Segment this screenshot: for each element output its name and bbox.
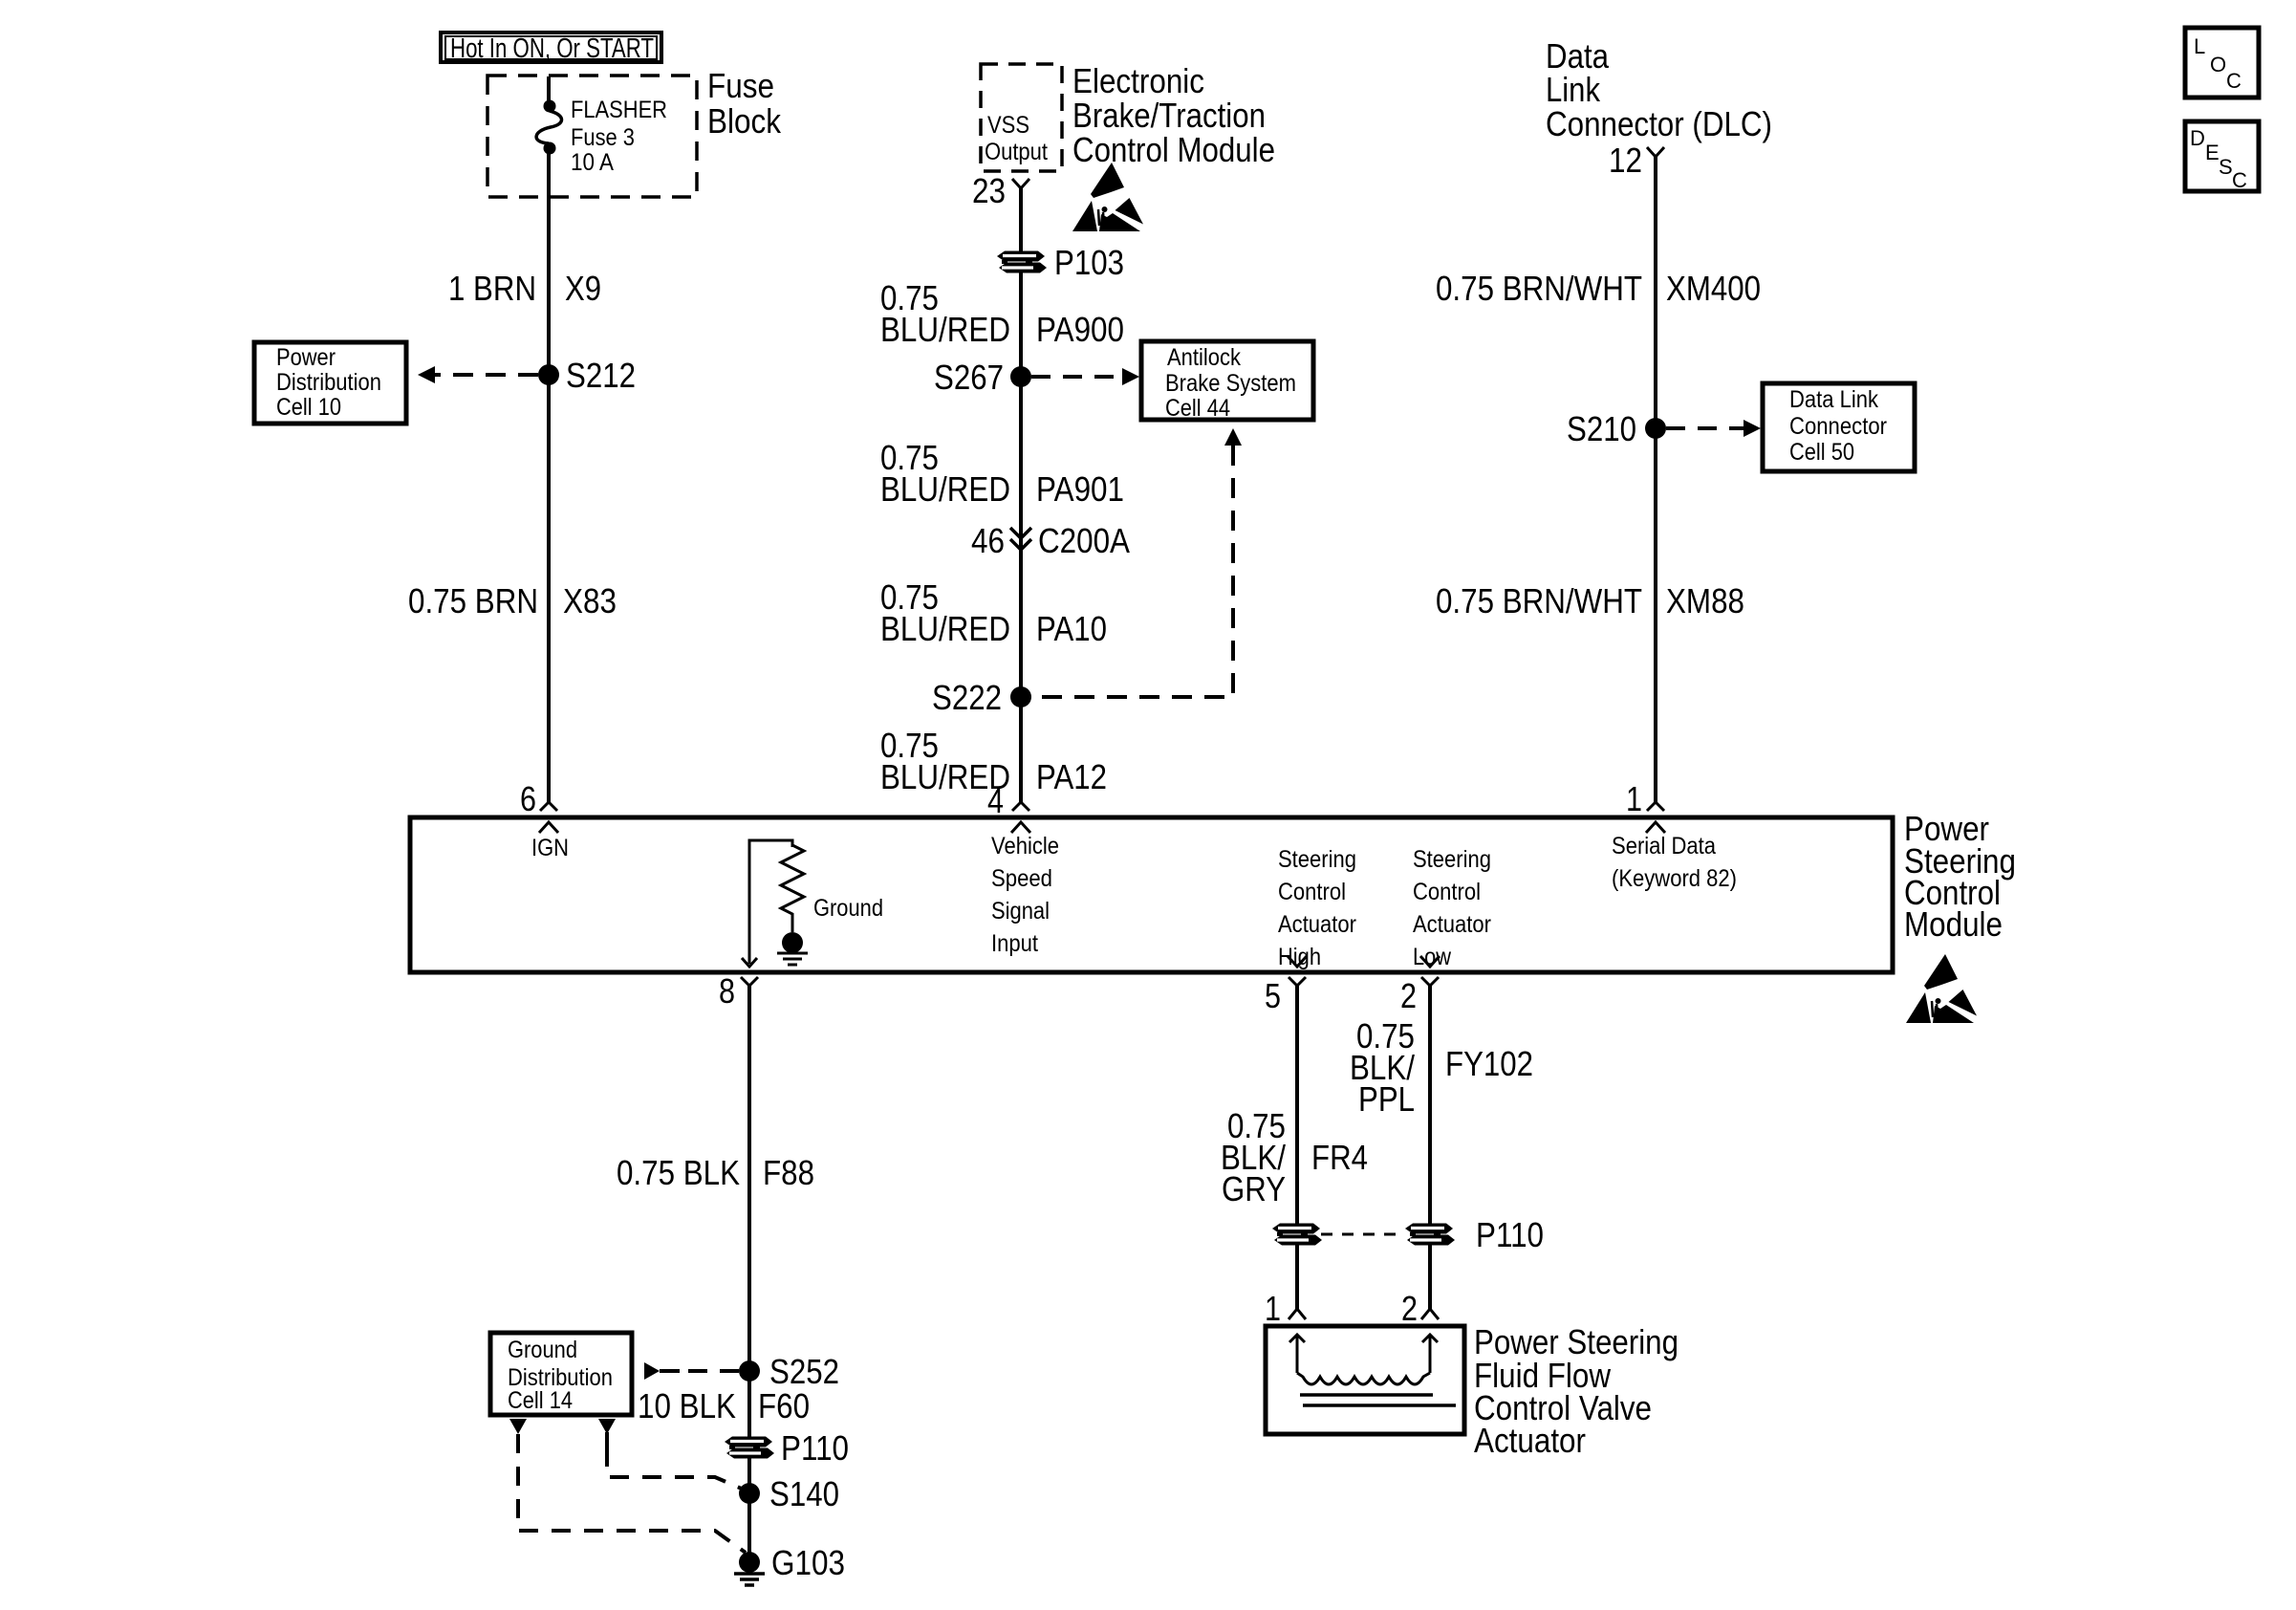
label: Steering Control Actuator High bbox=[1278, 846, 1356, 970]
box: DESC bbox=[2185, 121, 2259, 192]
svg-text:Cell 14: Cell 14 bbox=[508, 1387, 573, 1414]
svg-text:1: 1 bbox=[1265, 1289, 1281, 1328]
svg-text:O: O bbox=[2210, 53, 2226, 76]
splice S140 bbox=[739, 1474, 839, 1513]
label: 0.75 BLU/RED PA900 bbox=[880, 278, 1124, 349]
svg-text:Power: Power bbox=[276, 344, 336, 371]
svg-text:PA12: PA12 bbox=[1036, 757, 1107, 796]
fuse block dashed box bbox=[487, 76, 697, 197]
svg-text:0.75 BRN/WHT: 0.75 BRN/WHT bbox=[1436, 269, 1642, 308]
dashed line S222 to Antilock box with up arrow bbox=[1031, 428, 1242, 697]
svg-text:S212: S212 bbox=[566, 356, 636, 395]
pin 1 label and fork bbox=[1626, 779, 1664, 818]
svg-text:BLU/RED: BLU/RED bbox=[880, 609, 1010, 648]
svg-text:PA10: PA10 bbox=[1036, 609, 1107, 648]
svg-text:F88: F88 bbox=[763, 1153, 814, 1192]
svg-text:Input: Input bbox=[991, 930, 1038, 957]
dashed line to G103 bbox=[518, 1434, 746, 1553]
pin 8 label and fork bbox=[719, 971, 758, 1011]
svg-text:Distribution: Distribution bbox=[276, 369, 381, 396]
svg-text:Output: Output bbox=[985, 139, 1048, 165]
svg-text:Fuse 3: Fuse 3 bbox=[571, 124, 635, 151]
svg-text:10 BLK: 10 BLK bbox=[638, 1386, 736, 1425]
svg-text:Actuator: Actuator bbox=[1278, 911, 1356, 938]
svg-text:Brake System: Brake System bbox=[1165, 370, 1296, 397]
svg-text:S222: S222 bbox=[932, 678, 1002, 717]
wire: fuse block top stub bbox=[547, 76, 551, 101]
splice S210 bbox=[1567, 409, 1666, 448]
svg-text:BLU/RED: BLU/RED bbox=[880, 469, 1010, 509]
actuator pin 2 label and fork bbox=[1401, 1289, 1439, 1328]
box: Power Distribution Cell 10 bbox=[254, 342, 406, 424]
label: 0.75 BLK/PPL FY102 bbox=[1350, 1016, 1533, 1119]
wire: VSS signal (pin 23 to module pin 4) bbox=[1019, 188, 1023, 802]
svg-text:10 A: 10 A bbox=[571, 149, 614, 176]
svg-text:C200A: C200A bbox=[1038, 521, 1130, 560]
internal ground symbol bbox=[782, 932, 803, 953]
svg-text:Serial Data: Serial Data bbox=[1612, 833, 1716, 859]
svg-text:Data Link: Data Link bbox=[1789, 386, 1878, 413]
svg-text:L: L bbox=[2194, 34, 2205, 58]
internal ground circuit: wire, resistor, ground bbox=[742, 840, 883, 967]
connector grommet P110 left bbox=[1272, 1224, 1322, 1246]
dashed link between P110 halves bbox=[1321, 1233, 1405, 1236]
svg-text:S140: S140 bbox=[769, 1474, 839, 1513]
svg-text:Link: Link bbox=[1546, 70, 1601, 109]
svg-text:46: 46 bbox=[971, 521, 1005, 560]
splice S222 bbox=[932, 678, 1031, 717]
svg-text:X83: X83 bbox=[563, 581, 617, 620]
svg-text:Hot In ON, Or START: Hot In ON, Or START bbox=[450, 33, 654, 64]
splice S252 bbox=[739, 1352, 839, 1391]
connector grommet P110 (ground) bbox=[725, 1428, 849, 1468]
svg-text:P103: P103 bbox=[1054, 243, 1124, 282]
label: 0.75 BRN X83 bbox=[408, 581, 617, 620]
svg-text:2: 2 bbox=[1400, 976, 1417, 1015]
svg-text:Steering: Steering bbox=[1413, 846, 1491, 873]
svg-text:Cell 10: Cell 10 bbox=[276, 394, 341, 421]
svg-text:GRY: GRY bbox=[1222, 1169, 1286, 1208]
label: Electronic Brake/Traction Control Module bbox=[1072, 61, 1275, 169]
svg-text:Ground: Ground bbox=[508, 1337, 577, 1363]
svg-text:S210: S210 bbox=[1567, 409, 1636, 448]
label: 10 BLK F60 bbox=[638, 1386, 810, 1425]
svg-text:X9: X9 bbox=[565, 269, 601, 308]
label: 0.75 BLK F88 bbox=[617, 1153, 814, 1192]
svg-text:D: D bbox=[2190, 126, 2205, 150]
svg-text:S: S bbox=[2219, 155, 2233, 179]
dashed arrow to splice S252 bbox=[644, 1362, 739, 1380]
svg-text:Brake/Traction: Brake/Traction bbox=[1072, 96, 1266, 135]
svg-text:Control: Control bbox=[1413, 879, 1481, 905]
label: Vehicle Speed Signal Input bbox=[991, 833, 1059, 957]
svg-text:FLASHER: FLASHER bbox=[571, 97, 667, 123]
svg-text:Block: Block bbox=[707, 101, 782, 141]
pin 2 internal chevron bbox=[1420, 956, 1440, 967]
box: Power Steering Control Module bbox=[410, 817, 1893, 972]
svg-text:XM88: XM88 bbox=[1666, 581, 1744, 620]
label: Fuse Block bbox=[707, 66, 782, 141]
svg-text:E: E bbox=[2205, 141, 2220, 164]
svg-text:G103: G103 bbox=[771, 1543, 845, 1582]
svg-text:8: 8 bbox=[719, 971, 735, 1011]
svg-text:Fuse: Fuse bbox=[707, 66, 774, 105]
svg-text:S252: S252 bbox=[769, 1352, 839, 1391]
actuator coil with arrows bbox=[1289, 1335, 1456, 1405]
svg-text:PA901: PA901 bbox=[1036, 469, 1124, 509]
pin 4 label and fork bbox=[987, 781, 1029, 820]
wire: ignition feed X9/X83 (fuse to module pin 6) bbox=[547, 153, 551, 802]
svg-text:Vehicle: Vehicle bbox=[991, 833, 1059, 859]
dashed line to S140 bbox=[607, 1447, 744, 1490]
box: LOC bbox=[2185, 28, 2259, 98]
svg-text:Antilock: Antilock bbox=[1167, 344, 1241, 371]
wire: steering control actuator high FR4 (pin 5 to actuator pin 1) bbox=[1295, 986, 1299, 1309]
dashed arrow S267 to Antilock box bbox=[1031, 368, 1139, 385]
svg-text:Ground: Ground bbox=[813, 895, 883, 922]
fuse F1: FLASHER Fuse 3 10 A bbox=[536, 97, 667, 176]
ESD symbol (PSCM) bbox=[1906, 954, 1977, 1023]
svg-text:IGN: IGN bbox=[531, 835, 569, 861]
svg-text:Connector: Connector bbox=[1789, 413, 1887, 440]
svg-text:FY102: FY102 bbox=[1445, 1044, 1533, 1083]
svg-text:0.75 BRN/WHT: 0.75 BRN/WHT bbox=[1436, 581, 1642, 620]
svg-text:4: 4 bbox=[987, 781, 1004, 820]
label: 0.75 BLU/RED PA12 bbox=[880, 726, 1107, 796]
box: Antilock Brake System Cell 44 bbox=[1141, 341, 1313, 422]
svg-text:BLU/RED: BLU/RED bbox=[880, 310, 1010, 349]
box: Hot In ON, Or START bbox=[441, 33, 661, 64]
label: Power Steering Fluid Flow Control Valve Actuator bbox=[1474, 1322, 1679, 1460]
svg-text:PPL: PPL bbox=[1358, 1079, 1415, 1119]
svg-text:Cell 50: Cell 50 bbox=[1789, 439, 1854, 466]
svg-text:(Keyword 82): (Keyword 82) bbox=[1612, 865, 1737, 892]
svg-text:23: 23 bbox=[972, 171, 1006, 210]
label: 1 BRN X9 bbox=[448, 269, 601, 308]
down arrow left under Ground Distribution box bbox=[509, 1419, 527, 1434]
label: 0.75 BRN/WHT XM400 bbox=[1436, 269, 1761, 308]
label: Data Link Connector (DLC) bbox=[1546, 36, 1772, 143]
actuator pin 1 label and fork bbox=[1265, 1289, 1306, 1328]
wire: serial data XM400/XM88 (DLC pin 12 to module pin 1) bbox=[1654, 157, 1657, 802]
connector grommet P103 bbox=[997, 243, 1124, 282]
dashed arrow to Power Distribution bbox=[418, 366, 538, 383]
pin 6 label and fork bbox=[520, 779, 557, 818]
svg-text:S267: S267 bbox=[934, 358, 1004, 397]
svg-text:Module: Module bbox=[1904, 904, 2003, 944]
box: Ground Distribution Cell 14 bbox=[490, 1333, 632, 1415]
VSS Output dashed box bbox=[981, 64, 1062, 171]
pin 6 internal chevron bbox=[539, 822, 558, 833]
label: 0.75 BLK/GRY FR4 bbox=[1221, 1106, 1368, 1208]
svg-text:XM400: XM400 bbox=[1666, 269, 1761, 308]
label: Steering Control Actuator Low bbox=[1413, 846, 1491, 970]
splice S212 bbox=[538, 356, 636, 395]
svg-text:C: C bbox=[2226, 69, 2242, 93]
resistor bbox=[781, 845, 804, 932]
svg-text:2: 2 bbox=[1401, 1289, 1418, 1328]
pin 1 internal chevron bbox=[1646, 822, 1665, 833]
svg-text:6: 6 bbox=[520, 779, 536, 818]
down arrow right under Ground Distribution box bbox=[598, 1419, 616, 1434]
connector grommet P110 right bbox=[1405, 1215, 1544, 1254]
box: Power Steering Fluid Flow Control Valve Actuator bbox=[1266, 1326, 1464, 1434]
pin 4 internal chevron bbox=[1011, 822, 1030, 833]
svg-text:Speed: Speed bbox=[991, 865, 1052, 892]
svg-text:Electronic: Electronic bbox=[1072, 61, 1204, 100]
svg-text:Cell 44: Cell 44 bbox=[1165, 395, 1230, 422]
svg-text:Control Module: Control Module bbox=[1072, 130, 1275, 169]
dashed arrow S210 to Data Link Connector box bbox=[1666, 420, 1761, 437]
pin 12 fork at DLC bbox=[1609, 141, 1664, 180]
svg-text:High: High bbox=[1278, 944, 1321, 970]
svg-text:0.75 BRN: 0.75 BRN bbox=[408, 581, 538, 620]
svg-text:VSS: VSS bbox=[987, 112, 1029, 139]
label: Serial Data (Keyword 82) bbox=[1612, 833, 1737, 892]
svg-text:PA900: PA900 bbox=[1036, 310, 1124, 349]
svg-text:Signal: Signal bbox=[991, 898, 1050, 925]
svg-text:C: C bbox=[2232, 168, 2247, 192]
svg-text:1 BRN: 1 BRN bbox=[448, 269, 536, 308]
svg-text:12: 12 bbox=[1609, 141, 1642, 180]
label: Power Steering Control Module bbox=[1904, 809, 2016, 944]
svg-text:1: 1 bbox=[1626, 779, 1642, 818]
splice S267 bbox=[934, 358, 1031, 397]
svg-text:Steering: Steering bbox=[1278, 846, 1356, 873]
svg-text:0.75 BLK: 0.75 BLK bbox=[617, 1153, 740, 1192]
label: 0.75 BLU/RED PA10 bbox=[880, 577, 1107, 648]
connector C200A pass-through bbox=[971, 521, 1130, 560]
svg-text:Actuator: Actuator bbox=[1413, 911, 1491, 938]
pin 5 label and fork bbox=[1265, 976, 1306, 1015]
ground G103 bbox=[734, 1543, 845, 1585]
svg-text:5: 5 bbox=[1265, 976, 1281, 1015]
label: 0.75 BLU/RED PA901 bbox=[880, 438, 1124, 509]
svg-text:Actuator: Actuator bbox=[1474, 1421, 1586, 1460]
wire: steering control actuator low FY102 (pin 2 to actuator pin 2) bbox=[1428, 986, 1432, 1309]
ESD symbol (EBTCM) bbox=[1072, 163, 1143, 231]
svg-text:Connector (DLC): Connector (DLC) bbox=[1546, 104, 1772, 143]
svg-text:Control: Control bbox=[1278, 879, 1346, 905]
svg-text:P110: P110 bbox=[1476, 1215, 1544, 1254]
pin 5 internal chevron bbox=[1288, 956, 1307, 967]
pin 2 label and fork bbox=[1400, 976, 1439, 1015]
svg-text:FR4: FR4 bbox=[1311, 1138, 1368, 1177]
box: Data Link Connector Cell 50 bbox=[1763, 383, 1915, 471]
svg-text:P110: P110 bbox=[781, 1428, 849, 1468]
svg-text:F60: F60 bbox=[758, 1386, 810, 1425]
wire: ground F88/F60 (module pin 8 to G103) bbox=[747, 986, 751, 1562]
label: 0.75 BRN/WHT XM88 bbox=[1436, 581, 1744, 620]
svg-text:Low: Low bbox=[1413, 944, 1452, 970]
pin 23 fork at VSS output bbox=[972, 171, 1029, 210]
